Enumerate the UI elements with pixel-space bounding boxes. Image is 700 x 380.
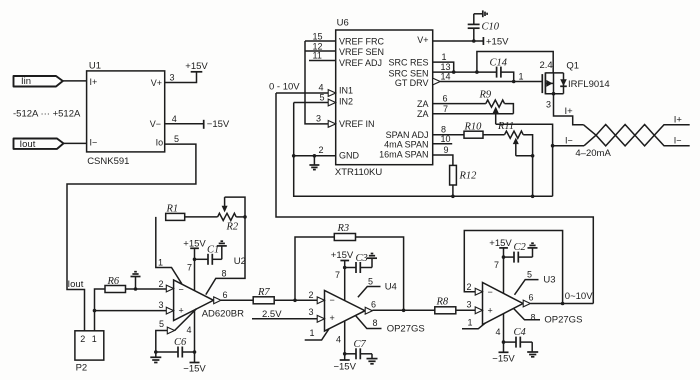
op-amp U2 AD620BR body (174, 280, 244, 321)
pin arrow U3 output (523, 300, 530, 307)
power terminal +15V (U2) (183, 238, 206, 249)
wire 0-10V loop back to IN1 (276, 93, 593, 304)
svg-text:Io: Io (156, 138, 164, 148)
svg-text:1: 1 (92, 334, 97, 344)
svg-text:−15V: −15V (207, 119, 230, 130)
svg-text:7: 7 (443, 104, 448, 114)
svg-text:I−: I− (565, 135, 573, 145)
svg-text:I+: I+ (90, 77, 98, 87)
wire IN2/GND vertical to bottom rail (294, 103, 553, 197)
wire U3 feedback pin 2 (464, 231, 562, 304)
wire U3 pin 1 (462, 323, 485, 329)
junction C3 (343, 266, 347, 270)
svg-text:R6: R6 (107, 276, 120, 287)
junction C1 (193, 258, 197, 262)
svg-text:IRFL9014: IRFL9014 (568, 79, 610, 90)
op-amp U4 OP27GS body (325, 291, 366, 332)
pin arrow U4 pin 2 (317, 297, 324, 304)
svg-text:I−: I− (90, 138, 98, 148)
wire 4mA SPAN stub (433, 143, 453, 145)
svg-text:10: 10 (441, 134, 451, 144)
junction gate line (512, 80, 516, 84)
wire U4 output to R8 (372, 309, 434, 311)
svg-text:0 - 10V: 0 - 10V (269, 82, 300, 93)
svg-text:−15V: −15V (492, 354, 515, 365)
junction C4 (502, 340, 506, 344)
wire pin 5 lead into body (175, 309, 197, 331)
svg-text:6: 6 (223, 290, 228, 300)
svg-text:C7: C7 (354, 339, 367, 350)
wire U2 pin 4 down (194, 310, 196, 363)
wire ZA pin 7 (433, 113, 514, 115)
junction U4 inverting node (293, 299, 297, 303)
IC U6 XTR110KU (335, 18, 433, 179)
svg-text:C4: C4 (514, 327, 527, 338)
svg-text:4–20mA: 4–20mA (575, 148, 611, 159)
svg-text:GT DRV: GT DRV (395, 78, 429, 88)
svg-text:U4: U4 (385, 281, 397, 292)
wire U4 pin 8 (356, 316, 382, 329)
pin arrow IN1 (328, 90, 336, 97)
wire pin 11 VREF ADJ stub (309, 60, 336, 62)
svg-text:GND: GND (339, 151, 360, 161)
pin arrow U2 output (214, 297, 221, 304)
pin arrow U2 pin 3 (166, 307, 173, 314)
twisted pair wire B (584, 125, 690, 146)
svg-text:6: 6 (529, 293, 534, 303)
wire SPAN ADJ to R10 (433, 134, 464, 136)
capacitor C14 (490, 57, 508, 77)
ground (U2, pointing down) (150, 352, 161, 363)
svg-text:−: − (488, 287, 493, 297)
power terminal -15V (U1) (204, 119, 230, 130)
wire U4 pin 1 (305, 329, 329, 340)
svg-text:U2: U2 (234, 256, 246, 267)
svg-text:ZA: ZA (417, 109, 429, 119)
wire R10 to R11 (483, 134, 505, 136)
wire R2 wiper loop to right end (225, 197, 245, 217)
ground (C1, pointing up) (217, 241, 227, 259)
svg-text:2.4: 2.4 (540, 60, 553, 71)
wire R2 right end (236, 216, 245, 218)
svg-text:4: 4 (172, 114, 177, 124)
svg-text:3: 3 (546, 100, 551, 110)
resistor R10 (464, 122, 484, 139)
wire Q1 drain rail top (553, 73, 555, 94)
pin arrow U4 output (365, 307, 372, 314)
junction R12 bottom rail (451, 195, 455, 199)
wire 16mA SPAN to R12 (433, 155, 453, 165)
wire Iin to U1 I+ (63, 80, 87, 82)
svg-text:6: 6 (371, 300, 376, 310)
connector P2 (75, 331, 104, 374)
capacitor C2 (504, 242, 533, 262)
svg-text:C6: C6 (174, 337, 187, 348)
svg-text:5: 5 (159, 319, 164, 329)
junction feedback/output (561, 302, 565, 306)
wire VREF bus vertical (305, 41, 336, 124)
wire R11 right end down (523, 135, 532, 197)
svg-text:IN1: IN1 (339, 86, 353, 96)
wire R9 right end down to pin 7 line (505, 104, 514, 114)
resistor R12 (450, 165, 478, 185)
svg-text:3: 3 (309, 307, 314, 317)
svg-text:R9: R9 (479, 90, 492, 101)
resistor R1 (166, 203, 185, 220)
ground (R6 line, pointing up) (131, 272, 141, 289)
svg-text:3: 3 (316, 114, 321, 124)
svg-text:1: 1 (158, 258, 163, 268)
wire V+ to +15V (433, 40, 484, 42)
svg-text:14: 14 (441, 72, 451, 82)
svg-text:R10: R10 (464, 122, 483, 133)
svg-text:4: 4 (187, 325, 192, 335)
wire ZA pin 6 to R9 (433, 103, 486, 105)
pin arrow U3 pin 3 (475, 307, 482, 314)
power terminal +15V (U3) (489, 238, 512, 249)
wire U1 V- to -15V (165, 123, 204, 125)
power terminal +15V (U6) (483, 37, 509, 48)
svg-text:−: − (179, 285, 184, 295)
svg-text:11: 11 (313, 51, 322, 61)
wire C14 to gate line (501, 72, 514, 81)
wire U2 pin 1 from R1 (156, 217, 182, 284)
svg-text:V−: V− (150, 119, 161, 129)
svg-text:R8: R8 (436, 296, 449, 307)
svg-text:3: 3 (170, 73, 175, 83)
svg-text:2: 2 (467, 282, 472, 292)
ground (C7, pointing down) (367, 354, 378, 364)
svg-text:Iout: Iout (68, 279, 84, 290)
junction GND/IN2 (292, 154, 296, 158)
wire +15V to U2 pin 7 (194, 248, 196, 290)
wire +15V to U3 pin 7 (503, 248, 505, 294)
capacitor C3 (345, 253, 372, 273)
wire U3 output to 0-10V loop (530, 303, 593, 305)
wire U3 pin 5 (515, 280, 539, 295)
svg-text:8: 8 (531, 313, 536, 323)
svg-text:2: 2 (309, 290, 314, 300)
resistor R6 (105, 276, 126, 293)
ground (C3, pointing up) (367, 254, 377, 268)
pin arrow U2 pin 5 (167, 327, 174, 334)
svg-text:4: 4 (496, 327, 501, 337)
capacitor C6 (156, 337, 195, 358)
wire U3 pin 4 down (503, 314, 505, 353)
potentiometer R11 (497, 121, 523, 156)
wire Iout to U1 I- (64, 142, 87, 144)
svg-text:I−: I− (674, 135, 682, 145)
wire U4 pin 4 down (344, 321, 346, 360)
svg-text:R11: R11 (497, 121, 514, 132)
svg-text:−15V: −15V (333, 362, 356, 373)
wire SRC RES (433, 62, 454, 72)
svg-text:C10: C10 (482, 22, 500, 33)
svg-text:15: 15 (313, 32, 323, 42)
capacitor C7 (345, 339, 372, 360)
pin arrow IN2 (328, 99, 336, 106)
svg-text:VREF IN: VREF IN (339, 119, 375, 129)
svg-text:V+: V+ (151, 78, 162, 88)
wire R11 wiper to right end (516, 155, 533, 157)
svg-text:VREF ADJ: VREF ADJ (339, 58, 382, 68)
svg-text:Q1: Q1 (566, 60, 579, 71)
wire pin 12 VREF SEN (305, 50, 336, 52)
svg-text:ZA: ZA (417, 99, 429, 109)
svg-text:4mA SPAN: 4mA SPAN (384, 140, 428, 150)
svg-text:C3: C3 (356, 253, 368, 264)
power terminal -15V (U2) (183, 363, 206, 375)
junction C2 (502, 255, 506, 259)
svg-text:+15V: +15V (331, 250, 354, 261)
svg-text:CSNK591: CSNK591 (87, 156, 129, 167)
resistor R7 (253, 287, 274, 304)
wire GND pin 2 (294, 155, 336, 157)
svg-text:5: 5 (174, 134, 179, 144)
wire junction to U2 pin 3 (95, 310, 167, 312)
IC U1 CSNK591 (87, 61, 165, 168)
wire loop SRC SEN to Q1 source (477, 52, 553, 73)
svg-text:R1: R1 (166, 203, 179, 214)
svg-text:3: 3 (467, 300, 472, 310)
connector tag Iin (14, 76, 63, 87)
wire 0-10V into IN1 (276, 92, 329, 94)
ground (C10, sideways) (474, 10, 487, 17)
wire U1 Io down-left to P2 pin 2 (67, 144, 196, 331)
junction ground symbol (313, 154, 317, 158)
svg-text:R7: R7 (257, 287, 270, 298)
ground (C4, pointing down) (527, 342, 538, 357)
svg-text:OP27GS: OP27GS (544, 315, 582, 326)
svg-text:7: 7 (494, 260, 499, 270)
svg-text:0~10V: 0~10V (565, 291, 593, 302)
junction C6 left / ground (154, 350, 158, 354)
svg-text:4: 4 (336, 335, 341, 345)
junction SRC RES/SEN (452, 70, 456, 74)
wire Q1 source to I+ line (554, 94, 584, 125)
transistor Q1 IRFL9014 (540, 60, 610, 95)
connector tag Iout (14, 139, 64, 150)
wire GT DRV to Q1 gate (440, 81, 542, 83)
svg-text:V+: V+ (417, 35, 428, 45)
svg-text:4: 4 (319, 83, 324, 93)
power terminal -15V (U3) (492, 352, 515, 364)
svg-text:VREF SEN: VREF SEN (339, 47, 384, 57)
junction I- rail (551, 144, 555, 148)
wire node up to R3 (295, 237, 334, 300)
wire R3 to U4 output (356, 237, 404, 310)
svg-text:13: 13 (441, 62, 451, 72)
pin arrow GT DRV (433, 78, 441, 85)
svg-text:6: 6 (443, 94, 448, 104)
svg-text:SRC SEN: SRC SEN (388, 68, 428, 78)
wire R12 to bottom rail (452, 185, 454, 196)
svg-text:−: − (330, 295, 335, 305)
svg-text:AD620BR: AD620BR (202, 309, 244, 320)
svg-text:+15V: +15V (486, 37, 509, 48)
pin arrow U4 pin 3 (317, 315, 324, 322)
svg-text:3: 3 (159, 300, 164, 310)
svg-text:R3: R3 (337, 223, 350, 234)
svg-text:C14: C14 (490, 57, 508, 68)
pin arrow VREF IN (328, 121, 336, 128)
wire U4 pin 5 (358, 287, 381, 298)
wire R9 wiper to right rail (496, 124, 553, 196)
svg-text:I+: I+ (674, 115, 683, 126)
twisted pair wire A (583, 125, 689, 146)
svg-text:+: + (330, 313, 335, 323)
pin arrow U2 pin 2 (166, 285, 173, 292)
junction C6 right (193, 350, 197, 354)
svg-text:+15V: +15V (185, 61, 208, 72)
resistor R3 (334, 223, 355, 240)
wire I- from right rail (553, 145, 585, 147)
svg-text:C2: C2 (514, 242, 527, 253)
svg-text:5: 5 (320, 92, 325, 102)
svg-text:1: 1 (468, 318, 473, 328)
capacitor C4 (504, 327, 533, 348)
wire SRC SEN to C14 (433, 71, 497, 73)
junction ground stub (134, 287, 138, 291)
ground (C2, pointing up) (528, 243, 538, 257)
svg-text:7: 7 (335, 270, 340, 280)
wire U2 pin 5 (156, 331, 168, 353)
svg-text:5: 5 (527, 269, 532, 279)
svg-text:9: 9 (444, 145, 449, 155)
svg-text:2: 2 (80, 334, 85, 344)
wire U2 pin 8 to R2 (206, 217, 245, 295)
svg-text:2: 2 (159, 279, 164, 289)
svg-text:I+: I+ (565, 106, 574, 117)
power terminal +15V (U1) (185, 61, 208, 72)
svg-text:-512A ··· +512A: -512A ··· +512A (13, 109, 81, 120)
resistor R8 (435, 296, 456, 314)
wire R7 to U4 pin 2 (274, 299, 317, 301)
svg-text:R12: R12 (459, 171, 478, 182)
wire pin 15 VREF FRC (305, 40, 336, 42)
wire R8 to U3 pin 3 (456, 309, 475, 311)
power terminal -15V (U4) (333, 360, 356, 373)
wire R1 to R2 (185, 216, 218, 218)
potentiometer R2 (218, 197, 239, 232)
svg-text:8: 8 (373, 318, 378, 328)
svg-text:SPAN ADJ: SPAN ADJ (386, 130, 429, 140)
ground (U6 GND) (309, 156, 319, 170)
svg-text:7: 7 (187, 262, 192, 272)
svg-text:IN2: IN2 (339, 96, 353, 106)
potentiometer R9 (479, 90, 505, 125)
wire U1 V+ to +15V (165, 72, 197, 83)
svg-text:8: 8 (222, 269, 227, 279)
wire R6 to U2 pin 2 (126, 288, 167, 290)
svg-text:1: 1 (310, 328, 315, 338)
svg-text:1: 1 (442, 52, 447, 62)
svg-text:SRC RES: SRC RES (388, 58, 428, 68)
svg-text:−15V: −15V (183, 364, 206, 375)
svg-text:Iout: Iout (20, 139, 36, 150)
op-amp U3 OP27GS body (483, 283, 524, 325)
junction R11 wiper (531, 154, 535, 158)
junction C7 (343, 352, 347, 356)
svg-text:U1: U1 (89, 61, 101, 72)
svg-text:5: 5 (368, 276, 373, 286)
svg-text:U6: U6 (337, 18, 349, 29)
svg-text:OP27GS: OP27GS (387, 323, 425, 334)
wire +15V to U4 pin 7 (344, 261, 346, 301)
svg-text:XTR110KU: XTR110KU (335, 167, 382, 178)
svg-text:U3: U3 (543, 274, 555, 285)
svg-text:+: + (179, 305, 184, 315)
wire U2 output to R7 (221, 299, 253, 301)
power terminal +15V (U4) (331, 250, 354, 261)
junction Q1 source (552, 92, 556, 96)
junction R3/output (402, 309, 406, 313)
svg-text:2: 2 (319, 145, 324, 155)
wire 2.5V to U4 pin 3 (252, 318, 317, 320)
wire IN2 (294, 102, 329, 104)
capacitor C10 (468, 14, 500, 41)
junction C14 loop (475, 70, 479, 74)
wire junction up to R6 (95, 289, 106, 311)
svg-text:+: + (488, 306, 493, 316)
svg-text:16mA SPAN: 16mA SPAN (379, 150, 428, 160)
junction R11 bottom rail (531, 195, 535, 199)
pin arrow U3 pin 2 (475, 288, 482, 295)
capacitor C1 (195, 244, 222, 264)
svg-text:R2: R2 (226, 221, 239, 232)
svg-text:Iin: Iin (21, 76, 31, 87)
svg-text:P2: P2 (76, 363, 88, 374)
junction C10 (472, 39, 476, 43)
wire U3 pin 8 (514, 308, 541, 319)
junction P2/pin3 node (93, 309, 97, 313)
svg-text:1: 1 (519, 71, 524, 81)
svg-text:VREF FRC: VREF FRC (339, 37, 385, 47)
junction R2/pin8 (243, 215, 247, 219)
wire P2 pin 1 up to junction (94, 311, 96, 331)
